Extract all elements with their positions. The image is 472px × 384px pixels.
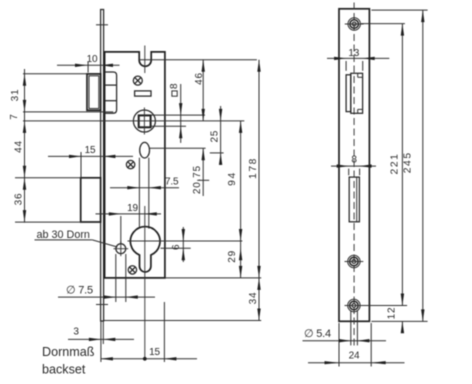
svg-text:8: 8 <box>169 83 180 89</box>
bottom screw hole <box>345 299 364 311</box>
svg-text:34: 34 <box>248 292 259 305</box>
svg-text:backset: backset <box>42 363 86 377</box>
svg-text:36: 36 <box>13 193 24 206</box>
deadbolt head (protruding) <box>81 178 101 222</box>
oval hole <box>140 142 150 158</box>
svg-text:46: 46 <box>194 72 205 85</box>
dimension 20.75 <box>192 148 209 196</box>
middle screw hole <box>345 255 364 267</box>
svg-text:8: 8 <box>351 155 357 166</box>
svg-text:7: 7 <box>9 113 20 119</box>
dimension dia 5.4 (screw hole) <box>303 311 387 345</box>
latch tail (inside case) <box>105 72 117 113</box>
svg-text:13: 13 <box>348 48 359 59</box>
top screw hole <box>345 18 364 30</box>
svg-text:221: 221 <box>390 153 401 175</box>
dimension 6 (cylinder axis offset) <box>161 227 191 262</box>
bottom chain: backset + 15 <box>101 302 197 362</box>
slot rectangle <box>135 91 151 96</box>
dimension 25 (spindle axis to oval) <box>150 106 224 165</box>
svg-text:44: 44 <box>14 140 25 153</box>
dimension dia 7.5 (hole diameter) <box>58 254 155 302</box>
svg-text:∅ 7.5: ∅ 7.5 <box>66 285 93 297</box>
dimension 245 (plate length) <box>371 10 427 321</box>
vertical centerline of lock axis <box>144 46 146 359</box>
deadbolt window <box>349 177 359 222</box>
svg-text:25: 25 <box>210 130 221 143</box>
svg-text:94: 94 <box>227 171 238 186</box>
svg-text:24: 24 <box>349 350 360 361</box>
dimension 221 / 12 chain <box>361 24 407 334</box>
svg-text:178: 178 <box>248 157 259 179</box>
dimension 13 (latch window width) <box>327 48 389 71</box>
lock case body with top notch <box>105 52 165 278</box>
ab 30 Dorn label with leader <box>35 229 118 247</box>
square-8 dimension (spindle square) <box>151 83 206 143</box>
faceplate (side view, 3mm strip) <box>96 10 108 322</box>
dimension 19 (hole to cylinder axis) <box>96 203 162 244</box>
svg-text:10: 10 <box>87 54 98 65</box>
svg-text:7.5: 7.5 <box>165 177 179 188</box>
horizontal centerline cylinder axis <box>128 240 243 242</box>
Dornmass / backset labels <box>42 345 95 377</box>
small hole with cross (fixing hole) <box>114 241 129 256</box>
screw boss bottom (circle with X) <box>128 266 136 274</box>
svg-text:31: 31 <box>10 89 21 102</box>
dimension 24 (plate width) <box>308 323 405 367</box>
dimension 46 (top line to spindle axis) <box>139 60 257 121</box>
svg-text:6: 6 <box>171 244 182 250</box>
svg-text:20.75: 20.75 <box>192 165 203 194</box>
dimension 178 / 34 chain <box>104 60 261 321</box>
plate centerline (dashed) <box>353 3 355 349</box>
case bottom extension line <box>165 277 261 279</box>
spindle follower: circles + square hole <box>133 108 155 135</box>
svg-text:Dornmaß: Dornmaß <box>42 345 95 359</box>
svg-text:12: 12 <box>387 307 398 320</box>
dimension 10 (latch protrusion) <box>57 54 120 73</box>
svg-text:15: 15 <box>149 347 160 358</box>
latch window <box>346 73 363 113</box>
dimension 8 (deadbolt window width) <box>331 155 376 176</box>
screw boss top (circle with X) <box>133 76 142 85</box>
latch head (in front of faceplate) <box>87 74 101 110</box>
dimension 7.5 (slot width) <box>110 177 179 190</box>
screw boss mid (circle with X) <box>126 160 134 168</box>
slot lines from oval down to cylinder <box>138 158 140 229</box>
svg-text:29: 29 <box>227 250 238 263</box>
dimension 94 / 29 chain <box>227 121 242 278</box>
dimension 15 (deadbolt to faceplate) <box>48 145 133 178</box>
svg-text:ab 30 Dorn: ab 30 Dorn <box>37 229 90 241</box>
svg-text:∅ 5.4: ∅ 5.4 <box>304 328 331 340</box>
plate outline <box>339 9 369 322</box>
euro profile cylinder hole <box>130 227 160 272</box>
dimension 3 (faceplate thickness) <box>68 322 134 363</box>
svg-text:15: 15 <box>85 145 96 156</box>
svg-text:19: 19 <box>127 203 138 214</box>
svg-text:245: 245 <box>403 151 414 173</box>
horizontal centerline spindle axis <box>23 120 244 122</box>
svg-text:3: 3 <box>73 327 79 338</box>
